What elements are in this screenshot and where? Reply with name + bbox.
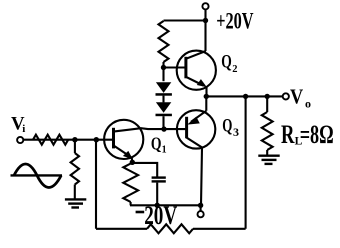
wire bottom rail left <box>96 228 147 230</box>
resistor R4 (feedback) <box>147 224 193 233</box>
node Q1 emitter junction <box>130 160 135 165</box>
label -20V <box>136 200 178 230</box>
terminal Vi <box>17 137 23 143</box>
svg-text:Q: Q <box>221 51 232 72</box>
resistor R1 (bias resistor from +20V) <box>159 21 169 62</box>
resistor R3 (input shunt to ground) <box>74 140 76 153</box>
wire feedback down <box>245 96 247 228</box>
diode D1 <box>156 82 172 95</box>
terminal -20V <box>198 211 204 217</box>
svg-text:Q: Q <box>151 134 162 154</box>
wire -20V rail <box>130 204 201 206</box>
wire top rail to resistor R1 <box>164 19 206 21</box>
resistor RL <box>266 96 268 112</box>
transistor Q2 <box>177 51 216 97</box>
resistor R5 (Q1 emitter) <box>123 164 138 203</box>
node input junction 1 <box>72 137 77 142</box>
wire to capacitor C1 <box>132 163 157 177</box>
svg-text:3: 3 <box>233 125 239 139</box>
capacitor C1 <box>152 176 166 182</box>
resistor R2 (input series) <box>33 135 68 145</box>
svg-text:Q: Q <box>222 116 232 137</box>
wire -20V terminal stub <box>200 205 202 211</box>
node -20V junction <box>198 203 203 208</box>
svg-text:20V: 20V <box>144 200 177 230</box>
wire bottom rail right <box>193 228 246 230</box>
transistor Q3 (PNP) <box>177 96 215 205</box>
label Vo <box>290 85 311 111</box>
ground input <box>65 199 86 207</box>
wire Q1 collector to Q3 base <box>113 128 186 131</box>
terminal +20V <box>202 3 208 9</box>
svg-text:V: V <box>290 85 303 109</box>
ground RL <box>258 156 279 164</box>
node RL junction <box>265 94 270 99</box>
node A (diode bottom junction) <box>161 126 166 131</box>
label Q2 <box>221 51 237 75</box>
wire R1 to diode D1 <box>162 62 164 81</box>
label Q1 <box>151 134 167 156</box>
node input junction 2 <box>94 137 99 142</box>
wire output rail <box>206 95 282 97</box>
node top junction <box>203 18 208 23</box>
node Q2 base junction <box>161 65 166 70</box>
svg-text:2: 2 <box>232 64 237 75</box>
wire C1 bottom <box>156 183 158 206</box>
svg-text:1: 1 <box>162 144 167 155</box>
svg-text:R: R <box>281 120 295 149</box>
label Q3 <box>222 116 239 139</box>
svg-text:=8Ω: =8Ω <box>300 120 334 149</box>
node C1 rail junction <box>155 203 160 208</box>
wire Q1 base <box>23 139 113 141</box>
terminal Vo <box>283 93 289 99</box>
svg-text:i: i <box>22 123 25 135</box>
wire feedback up to input <box>95 140 97 229</box>
wire D2 to node A <box>162 116 164 129</box>
transistor Q1 <box>104 120 143 163</box>
diode D2 <box>156 102 172 116</box>
node feedback junction <box>243 94 248 99</box>
label RL=8ohm <box>281 120 334 149</box>
wire +20V stub <box>204 9 206 51</box>
sine wave source symbol <box>11 164 63 188</box>
wire Q2 base <box>164 66 187 68</box>
svg-text:+20V: +20V <box>216 9 254 34</box>
svg-text:o: o <box>305 97 311 111</box>
wire D1 to D2 <box>162 96 164 103</box>
node output left junction <box>204 94 209 99</box>
label Vi <box>11 115 25 135</box>
